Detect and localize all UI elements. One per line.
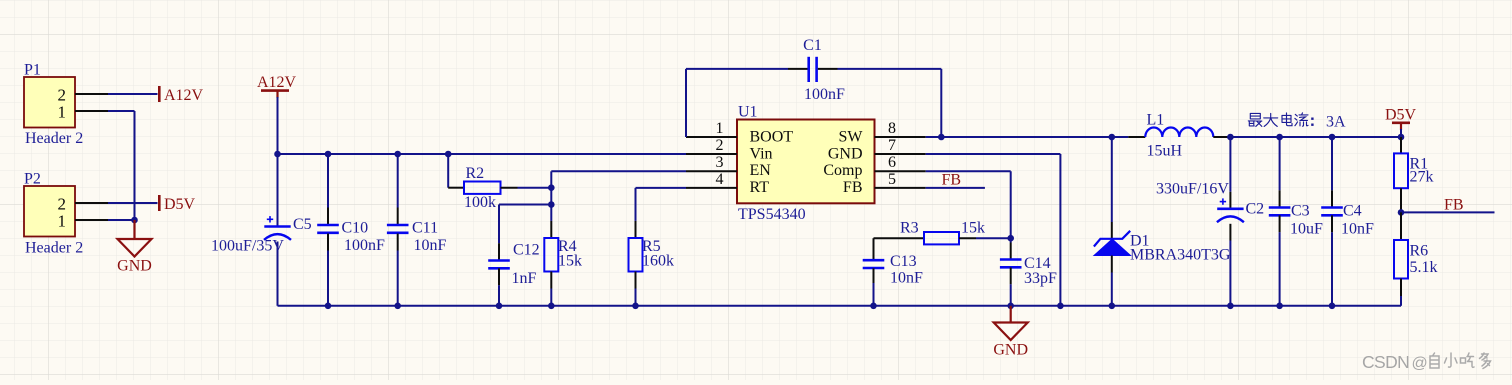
wire P1.1 right (108, 110, 135, 112)
svg-text:3A: 3A (1326, 113, 1346, 130)
svg-text:FB: FB (942, 172, 962, 189)
svg-text:3: 3 (716, 154, 724, 171)
svg-text:CSDN: CSDN (1362, 352, 1409, 372)
svg-text:P1: P1 (24, 62, 41, 79)
junction R1/R6/FB (1398, 209, 1405, 216)
C3 pin stub bottom (1279, 215, 1281, 232)
C2 pin stub top (1229, 192, 1231, 209)
svg-text:Header 2: Header 2 (25, 130, 83, 147)
svg-text:GND: GND (828, 145, 863, 162)
svg-text:100nF: 100nF (344, 237, 385, 254)
wire BOOT up (685, 69, 687, 137)
wire R6 bottom (1400, 296, 1402, 306)
svg-text:A12V: A12V (164, 87, 204, 104)
svg-text:D5V: D5V (164, 196, 196, 213)
capacitor C1 (807, 57, 810, 82)
U1 pin 1 stub (686, 136, 737, 138)
wire C1 down to SW (940, 69, 942, 137)
svg-text:MBRA340T3G: MBRA340T3G (1130, 247, 1231, 264)
wire C2 top (1229, 137, 1231, 192)
R2 pin stub right (501, 187, 518, 189)
wire C13 bottom (873, 283, 875, 306)
svg-text:5: 5 (888, 171, 896, 188)
svg-text:330uF/16V: 330uF/16V (1156, 181, 1229, 198)
svg-text:FB: FB (1444, 197, 1464, 214)
wire EN node vertical (550, 171, 552, 221)
junction out/C3 (1276, 134, 1283, 141)
svg-text:FB: FB (843, 179, 863, 196)
R3 pin stub right (959, 237, 976, 239)
svg-text:TPS54340: TPS54340 (738, 206, 806, 223)
watermark CJK handle (hand-drawn) (1430, 353, 1439, 368)
inductor L1 (1145, 128, 1213, 138)
svg-text:GND: GND (993, 342, 1028, 359)
annotation colon (1311, 118, 1313, 120)
U1 pin 5 stub (875, 187, 926, 189)
svg-text:C1: C1 (803, 37, 822, 54)
junction C11/GND rail (394, 303, 401, 310)
C3 pin stub top (1279, 190, 1281, 207)
P1 pin 1 stub (75, 110, 108, 112)
junction C12/GND rail (496, 303, 503, 310)
svg-text:1: 1 (58, 212, 67, 231)
wire output rail (1229, 136, 1401, 138)
svg-text:C12: C12 (513, 242, 540, 259)
ground symbol (main) (1010, 306, 1012, 323)
C14 pin stub bottom (1010, 267, 1012, 284)
svg-text:8: 8 (888, 120, 896, 137)
svg-text:6: 6 (888, 154, 896, 171)
svg-text:1nF: 1nF (512, 270, 537, 287)
C4 pin stub bottom (1331, 215, 1333, 232)
junction out/D5V/R1 (1398, 134, 1405, 141)
wire C3 top (1279, 137, 1281, 190)
P1 pin 2 stub (75, 93, 108, 95)
svg-text:R2: R2 (466, 165, 485, 182)
junction Vin/C11 (394, 151, 401, 158)
junction C3/GND rail (1276, 303, 1283, 310)
capacitor C2 (polarized) (1217, 208, 1243, 211)
wire EN to U1 pin 3 (551, 170, 686, 172)
svg-text:@: @ (1412, 355, 1428, 372)
C11 pin stub bottom (397, 234, 399, 251)
R5 pin stub top (635, 221, 637, 238)
wire C10 top (327, 154, 329, 208)
ground symbol triangle (main) (994, 323, 1028, 341)
svg-text:100uF/35V: 100uF/35V (211, 238, 284, 255)
junction EN/R2 (548, 184, 555, 191)
wire SW down to D1 (1111, 137, 1113, 222)
svg-text:160k: 160k (642, 253, 674, 270)
svg-text:10nF: 10nF (414, 237, 447, 254)
wire D5V to rail (1400, 129, 1402, 137)
wire P2.2 to D5V (108, 202, 158, 204)
svg-text:4: 4 (716, 171, 724, 188)
wire Vin to R2 (down) (447, 154, 449, 188)
ground symbol (left) (118, 239, 152, 257)
svg-text:C3: C3 (1291, 203, 1310, 220)
svg-text:BOOT: BOOT (750, 129, 794, 146)
svg-text:15uH: 15uH (1147, 143, 1183, 160)
resistor R6 (1394, 240, 1408, 279)
junction P1.1/P2.1/GND (131, 217, 138, 224)
junction C14/GND rail (1007, 303, 1014, 310)
U1 pin 7 stub (875, 153, 926, 155)
resistor R2 (464, 182, 501, 194)
svg-text:U1: U1 (738, 104, 758, 121)
wire C3 bottom (1279, 232, 1281, 305)
svg-text:1: 1 (58, 103, 67, 122)
junction out/C4 (1329, 134, 1336, 141)
U1 pin 3 stub (686, 170, 737, 172)
svg-text:D5V: D5V (1385, 107, 1417, 124)
wire R5 bottom (635, 289, 637, 306)
junction GND7/rail (1057, 303, 1064, 310)
svg-text:100k: 100k (464, 194, 496, 211)
svg-text:GND: GND (117, 258, 152, 275)
svg-text:15k: 15k (558, 253, 582, 270)
wire P2.1 right (108, 219, 135, 221)
power port D5V (at P2) (158, 195, 161, 211)
C4 pin stub top (1331, 190, 1333, 207)
svg-text:Vin: Vin (750, 145, 773, 162)
wire C13 top vertical (873, 238, 875, 260)
svg-text:R6: R6 (1410, 243, 1429, 260)
svg-text:100nF: 100nF (804, 86, 845, 103)
svg-text:10uF: 10uF (1290, 221, 1323, 238)
R6 pin stub bottom (1400, 279, 1402, 297)
svg-text:R3: R3 (900, 220, 919, 237)
svg-text:A12V: A12V (257, 74, 297, 91)
svg-text:1: 1 (716, 120, 724, 137)
svg-text:Header 2: Header 2 (25, 240, 83, 257)
svg-text:7: 7 (888, 137, 896, 154)
svg-text:C2: C2 (1246, 201, 1265, 218)
svg-text:2: 2 (716, 137, 724, 154)
wire C5 bottom (277, 242, 279, 306)
wire C4 bottom (1331, 232, 1333, 305)
svg-text:P2: P2 (24, 171, 41, 188)
capacitor C3 (1269, 206, 1291, 209)
junction Vin/R2 (445, 151, 452, 158)
R1 pin stub top (1400, 137, 1402, 153)
junction R4/GND rail (548, 303, 555, 310)
svg-text:33pF: 33pF (1024, 270, 1057, 287)
annotation text: max current 3A (CJK) (1250, 113, 1260, 119)
wire R2 to EN node (518, 187, 552, 189)
R4 pin stub top (550, 221, 552, 238)
junction D1/GND rail (1109, 303, 1116, 310)
U1 pin 4 stub (686, 187, 737, 189)
resistor R1 (1394, 153, 1408, 188)
wire P1.2 to A12V (108, 93, 158, 95)
wire C10 bottom (327, 251, 329, 306)
wire FB out (1401, 211, 1495, 213)
U1 pin 2 stub (686, 153, 737, 155)
junction C13/GND rail (870, 303, 877, 310)
P2 pin 2 stub (75, 202, 108, 204)
R2 pin stub left (448, 187, 464, 189)
capacitor C13 (863, 259, 885, 262)
capacitor C10 (317, 224, 339, 227)
wire C5 top (277, 154, 279, 227)
C1 pin stub left (788, 68, 808, 70)
wire A12V down to Vin rail (277, 97, 279, 154)
R6 pin stub top (1400, 212, 1402, 240)
svg-text:C13: C13 (890, 253, 917, 270)
wire R3 to Comp node (976, 237, 1011, 239)
wire Comp right (926, 170, 1011, 172)
wire R3 left to C13 (horiz) (874, 237, 925, 239)
wire C4 top (1331, 137, 1333, 190)
wire C12 top vertical (498, 205, 500, 244)
wire U1 GND right (926, 153, 1061, 155)
svg-text:10nF: 10nF (1341, 221, 1374, 238)
C1 pin stub right (818, 68, 838, 70)
svg-text:15k: 15k (961, 220, 985, 237)
connector P1 (24, 77, 75, 128)
wire C11 bottom (397, 251, 399, 306)
wire C1 left (686, 68, 788, 70)
diode D1 (schottky MBRA340T3G) (1094, 239, 1131, 256)
GND stem (left) (133, 220, 135, 239)
resistor R4 (544, 238, 558, 272)
wire Vin rail (278, 153, 687, 155)
wire RT to U1 pin 4 (636, 187, 687, 189)
L1 pin stub left (1128, 136, 1145, 138)
junction out/C2 (1227, 134, 1234, 141)
wire C12 bottom (498, 285, 500, 306)
wire Comp down (1010, 171, 1012, 242)
P2 pin 1 stub (75, 219, 108, 221)
wire R5 top vertical (635, 188, 637, 221)
C13 pin stub bottom (873, 268, 875, 283)
svg-text:27k: 27k (1410, 169, 1434, 186)
C10 pin stub top (327, 208, 329, 225)
C2 pin stub bottom (1229, 224, 1231, 241)
svg-text:C11: C11 (412, 220, 438, 237)
svg-text:C4: C4 (1343, 203, 1362, 220)
wire R4 bottom (550, 289, 552, 306)
R1 pin stub bottom (1400, 188, 1402, 212)
capacitor C5 (polarized) (264, 225, 290, 228)
svg-text:EN: EN (750, 162, 772, 179)
svg-text:C10: C10 (342, 220, 369, 237)
R5 pin stub bottom (635, 272, 637, 289)
C11 pin stub top (397, 208, 399, 225)
junction EN/C12 (548, 201, 555, 208)
wire C11 top (397, 154, 399, 208)
D1 pin stub top (1111, 222, 1113, 239)
svg-text:RT: RT (750, 179, 770, 196)
junction Vin/C10 (325, 151, 332, 158)
wire C1 right (838, 68, 942, 70)
power port A12V (at P1) (158, 86, 161, 102)
L1 pin stub right (1213, 136, 1230, 138)
svg-text:L1: L1 (1147, 112, 1165, 129)
C14 pin stub top (1010, 243, 1012, 260)
resistor R5 (629, 238, 643, 272)
junction C4/GND rail (1329, 303, 1336, 310)
junction R5/GND rail (632, 303, 639, 310)
capacitor C11 (387, 224, 409, 227)
capacitor C12 (488, 259, 510, 262)
wire D1 bottom (1111, 273, 1113, 306)
junction C10/GND rail (325, 303, 332, 310)
wire P1.1 down to GND node (134, 111, 136, 220)
svg-text:SW: SW (839, 129, 864, 146)
op-amp U1 body (TPS54340 regulator) (737, 120, 875, 204)
svg-text:5.1k: 5.1k (1410, 259, 1438, 276)
wire C12 to EN node (499, 204, 551, 206)
junction C2/GND rail (1227, 303, 1234, 310)
wire C2 bottom (1229, 241, 1231, 306)
wire C14 bottom (1010, 284, 1012, 306)
wire GND bottom rail (278, 305, 1402, 307)
resistor R3 (924, 232, 959, 244)
C10 pin stub bottom (327, 234, 329, 251)
junction Vin/C5 (274, 151, 281, 158)
C12 pin stub bottom (498, 268, 500, 285)
D1 pin stub bottom (1111, 256, 1113, 273)
connector P2 (24, 186, 75, 237)
R4 pin stub bottom (550, 272, 552, 289)
U1 pin 8 stub (875, 136, 926, 138)
svg-text:C5: C5 (293, 216, 312, 233)
junction SW/D1 (1109, 134, 1116, 141)
wire SW rail (926, 136, 1129, 138)
capacitor C14 (1000, 258, 1022, 261)
U1 pin 6 stub (875, 170, 926, 172)
svg-text:Comp: Comp (823, 162, 862, 179)
wire FB (U1 pin5) (926, 187, 985, 189)
junction Comp/R3 (1007, 235, 1014, 242)
junction SW/C1 (938, 134, 945, 141)
wire U1 GND down (1059, 154, 1061, 306)
svg-text:10nF: 10nF (890, 270, 923, 287)
capacitor C4 (1321, 206, 1343, 209)
C12 pin stub top (498, 243, 500, 260)
